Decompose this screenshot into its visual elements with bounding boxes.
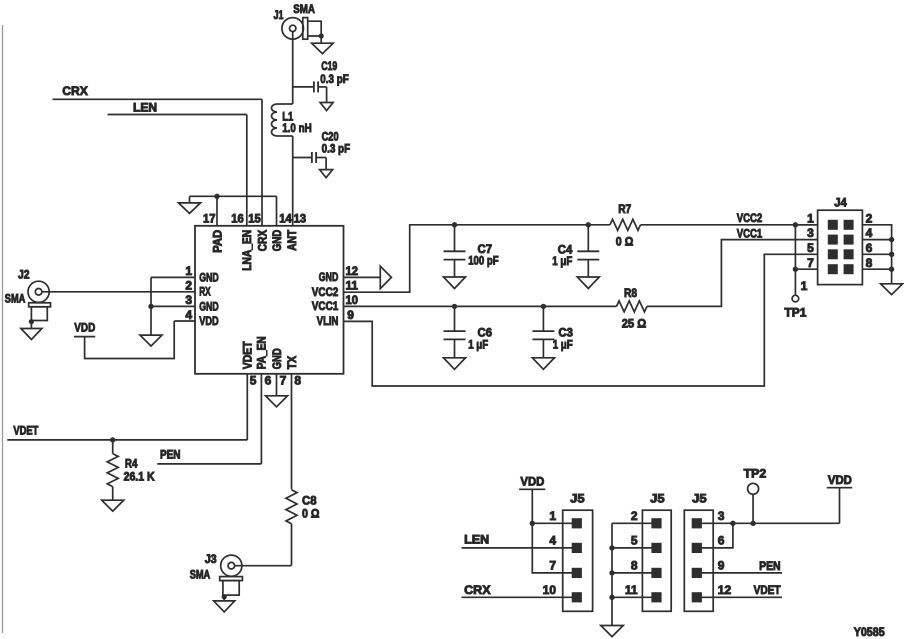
svg-text:8: 8: [866, 256, 873, 270]
svg-text:6: 6: [866, 241, 873, 255]
svg-text:0.3 pF: 0.3 pF: [320, 72, 349, 86]
svg-text:4: 4: [866, 226, 873, 240]
svg-text:10: 10: [543, 583, 557, 597]
svg-text:VDD: VDD: [828, 473, 852, 487]
svg-text:LEN: LEN: [464, 532, 489, 546]
svg-text:VDET: VDET: [754, 583, 782, 597]
svg-text:J5: J5: [692, 491, 707, 505]
svg-text:PEN: PEN: [759, 559, 781, 573]
svg-text:7: 7: [807, 256, 814, 270]
svg-text:1 μF: 1 μF: [553, 337, 573, 351]
svg-text:13: 13: [294, 211, 307, 225]
svg-text:3: 3: [807, 226, 814, 240]
svg-text:VDET: VDET: [241, 341, 255, 370]
svg-text:VCC2: VCC2: [737, 211, 763, 225]
svg-text:17: 17: [203, 211, 216, 225]
svg-text:10: 10: [346, 293, 359, 307]
svg-text:4: 4: [185, 308, 192, 322]
svg-text:2: 2: [866, 211, 873, 225]
svg-text:VDD: VDD: [520, 474, 544, 488]
svg-text:GND: GND: [270, 348, 284, 369]
svg-text:VDET: VDET: [13, 423, 39, 437]
svg-text:25 Ω: 25 Ω: [622, 317, 647, 331]
svg-text:J4: J4: [834, 196, 847, 210]
svg-text:VDD: VDD: [199, 314, 219, 328]
svg-text:J5: J5: [650, 491, 665, 505]
svg-text:5: 5: [250, 373, 257, 387]
svg-text:11: 11: [625, 583, 638, 597]
svg-text:0 Ω: 0 Ω: [302, 507, 320, 521]
svg-text:TP1: TP1: [784, 305, 806, 319]
svg-text:1.0 nH: 1.0 nH: [282, 121, 312, 135]
svg-text:14: 14: [279, 211, 292, 225]
svg-text:11: 11: [346, 278, 359, 292]
svg-text:8: 8: [294, 373, 301, 387]
svg-text:1 μF: 1 μF: [552, 254, 572, 268]
svg-text:VDD: VDD: [74, 320, 95, 334]
svg-text:GND: GND: [270, 230, 284, 252]
svg-text:GND: GND: [319, 270, 339, 284]
svg-text:GND: GND: [199, 299, 219, 313]
svg-text:LNA_EN: LNA_EN: [240, 230, 254, 271]
svg-text:C8: C8: [302, 494, 317, 508]
svg-text:J3: J3: [205, 552, 217, 566]
svg-text:5: 5: [807, 241, 814, 255]
svg-text:1 μF: 1 μF: [468, 337, 488, 351]
svg-text:1: 1: [185, 264, 192, 278]
svg-text:R8: R8: [624, 286, 637, 300]
svg-text:6: 6: [265, 373, 272, 387]
svg-text:7: 7: [549, 559, 556, 573]
svg-text:VCC1: VCC1: [737, 226, 763, 240]
svg-text:VCC2: VCC2: [312, 285, 339, 299]
svg-text:SMA: SMA: [190, 567, 211, 581]
svg-text:PEN: PEN: [160, 448, 181, 462]
svg-text:9: 9: [347, 308, 354, 322]
svg-text:Y0585: Y0585: [854, 625, 885, 639]
svg-text:1: 1: [801, 279, 808, 293]
svg-text:RX: RX: [199, 285, 211, 299]
svg-text:16: 16: [231, 211, 244, 225]
svg-text:VLIN: VLIN: [317, 314, 339, 328]
svg-text:100 pF: 100 pF: [468, 254, 499, 268]
svg-text:6: 6: [718, 534, 725, 548]
svg-text:7: 7: [280, 373, 287, 387]
svg-text:26.1 K: 26.1 K: [124, 470, 155, 484]
svg-text:9: 9: [718, 559, 725, 573]
svg-text:2: 2: [631, 509, 638, 523]
svg-text:CRX: CRX: [62, 84, 88, 98]
svg-text:3: 3: [718, 509, 725, 523]
svg-text:PAD: PAD: [210, 229, 224, 252]
svg-text:1: 1: [807, 211, 814, 225]
svg-text:CRX: CRX: [464, 583, 491, 597]
svg-text:C19: C19: [321, 59, 337, 73]
svg-text:8: 8: [631, 559, 638, 573]
svg-text:CRX: CRX: [255, 230, 269, 252]
svg-text:VCC1: VCC1: [312, 299, 339, 313]
svg-text:4: 4: [549, 534, 556, 548]
svg-text:2: 2: [185, 279, 192, 293]
svg-text:3: 3: [185, 293, 192, 307]
svg-text:J2: J2: [18, 267, 30, 281]
svg-text:J1: J1: [274, 8, 284, 22]
svg-text:12: 12: [346, 264, 359, 278]
svg-text:TP2: TP2: [744, 466, 767, 480]
svg-text:5: 5: [631, 534, 638, 548]
svg-text:PA_EN: PA_EN: [255, 336, 269, 369]
svg-text:0.3 pF: 0.3 pF: [322, 141, 351, 155]
svg-text:SMA: SMA: [5, 291, 26, 305]
svg-text:SMA: SMA: [293, 2, 315, 16]
svg-text:0 Ω: 0 Ω: [616, 235, 634, 249]
svg-text:GND: GND: [199, 270, 219, 284]
svg-text:TX: TX: [285, 356, 299, 370]
svg-text:R4: R4: [125, 457, 138, 471]
svg-text:J5: J5: [570, 491, 585, 505]
svg-text:R7: R7: [618, 202, 631, 216]
svg-text:ANT: ANT: [285, 229, 299, 251]
svg-text:1: 1: [549, 509, 556, 523]
svg-text:12: 12: [718, 583, 732, 597]
svg-text:15: 15: [248, 211, 261, 225]
svg-text:LEN: LEN: [133, 101, 157, 115]
